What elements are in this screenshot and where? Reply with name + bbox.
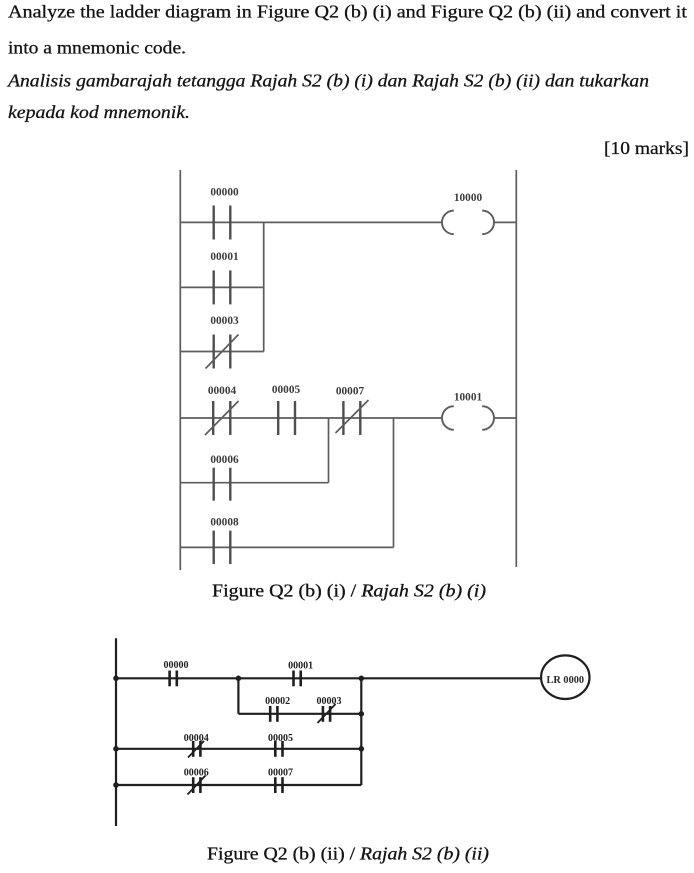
svg-text:Figure Q2 (b) (i) / Rajah S2 (: Figure Q2 (b) (i) / Rajah S2 (b) (i)	[212, 581, 486, 601]
svg-text:00003: 00003	[317, 696, 342, 707]
svg-text:00005: 00005	[272, 384, 301, 396]
svg-text:00005: 00005	[268, 733, 293, 744]
svg-text:00007: 00007	[268, 768, 293, 779]
svg-text:00000: 00000	[210, 186, 239, 198]
svg-text:Analisis gambarajah tetangga R: Analisis gambarajah tetangga Rajah S2 (b…	[7, 71, 649, 92]
svg-text:kepada kod mnemonik.: kepada kod mnemonik.	[8, 102, 190, 122]
svg-text:00001: 00001	[210, 251, 239, 263]
svg-text:LR 0000: LR 0000	[547, 675, 584, 686]
svg-text:00007: 00007	[336, 385, 365, 397]
svg-text:00001: 00001	[288, 661, 313, 672]
svg-text:[10 marks]: [10 marks]	[604, 138, 689, 158]
svg-text:into a mnemonic code.: into a mnemonic code.	[8, 37, 186, 57]
svg-text:Figure Q2 (b) (ii) / Rajah S2: Figure Q2 (b) (ii) / Rajah S2 (b) (ii)	[207, 844, 489, 864]
svg-text:00004: 00004	[184, 733, 209, 744]
svg-text:10001: 10001	[454, 392, 483, 404]
svg-text:00008: 00008	[210, 517, 239, 529]
svg-text:00000: 00000	[164, 660, 189, 671]
svg-text:00006: 00006	[210, 454, 239, 466]
svg-text:10000: 10000	[454, 192, 483, 204]
svg-text:00004: 00004	[208, 385, 237, 397]
svg-text:00002: 00002	[265, 696, 290, 707]
svg-text:00003: 00003	[210, 315, 239, 327]
svg-text:Analyze the ladder diagram in: Analyze the ladder diagram in Figure Q2 …	[8, 2, 687, 23]
svg-text:00006: 00006	[184, 768, 209, 779]
